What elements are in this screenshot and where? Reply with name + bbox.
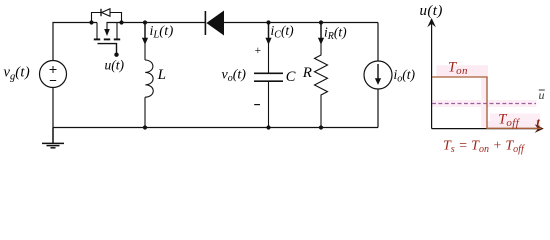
- dashed mean line: [432, 103, 536, 105]
- drain stub: [96, 23, 98, 39]
- pink halo dashed line: [432, 100, 537, 107]
- svg-text:+: +: [255, 45, 262, 57]
- source stub: [116, 23, 118, 39]
- svg-text:vg(t): vg(t): [4, 65, 31, 83]
- svg-text:R: R: [302, 65, 312, 81]
- svg-text:C: C: [286, 69, 296, 85]
- capacitor C wires: [268, 23, 270, 128]
- wire right branch bottom: [377, 89, 379, 128]
- pink halo above baseline: [487, 121, 541, 128]
- pink halo above high line: [437, 65, 489, 76]
- inductor L wire: [144, 23, 146, 61]
- resistor R zigzag: [315, 23, 328, 128]
- y axis: [431, 22, 433, 129]
- current arrow iR: [320, 24, 322, 39]
- ground: [42, 128, 64, 148]
- body diode branch: [92, 13, 122, 23]
- svg-text:t: t: [536, 115, 540, 130]
- body diode triangle (open, points left): [102, 9, 110, 17]
- wire top rail middle: [107, 22, 206, 24]
- gate bar and lead: [98, 44, 117, 53]
- svg-text:u(t): u(t): [420, 3, 443, 19]
- body stub: [106, 23, 108, 30]
- body arrow: [104, 29, 110, 36]
- node dot resistor bottom: [319, 125, 323, 129]
- node dot resistor top: [319, 20, 323, 24]
- current arrow iC: [268, 24, 270, 39]
- wire top rail right: [224, 22, 378, 24]
- current arrow iL: [144, 24, 146, 39]
- voltage source Vg: [40, 61, 67, 88]
- wire vg bottom: [52, 88, 54, 128]
- current source io: [364, 61, 392, 89]
- diode D1 (series, points left): [204, 11, 206, 35]
- svg-text:iC(t): iC(t): [271, 23, 295, 41]
- svg-text:io(t): io(t): [394, 67, 416, 85]
- wire top-left from vg to rail: [53, 23, 97, 61]
- node dot bottom L: [143, 125, 147, 129]
- junction dot left: [89, 20, 93, 24]
- inductor bottom wire: [144, 97, 146, 127]
- contact bars: [94, 38, 120, 40]
- wire right branch down: [377, 23, 379, 62]
- svg-text:iR(t): iR(t): [324, 25, 347, 43]
- node dot capacitor top: [266, 20, 270, 24]
- node A dot: [143, 20, 147, 24]
- svg-text:L: L: [157, 67, 166, 83]
- pink halo behind Toff: [490, 114, 540, 122]
- x axis: [432, 128, 541, 130]
- junction dot right: [119, 20, 123, 24]
- pink halo falling edge: [481, 71, 486, 128]
- wire bottom rail: [53, 127, 378, 129]
- minus sign vo: [254, 104, 260, 106]
- capacitor plates: [254, 73, 283, 81]
- svg-text:u(t): u(t): [105, 58, 125, 73]
- gate terminal dot: [114, 53, 118, 57]
- svg-text:vo(t): vo(t): [222, 68, 247, 85]
- red pulse waveform: [432, 77, 541, 128]
- node dot capacitor bottom: [266, 125, 270, 129]
- inductor L coil: [145, 60, 153, 97]
- body diode cathode bar: [100, 9, 102, 16]
- MOSFET Q1 with body diode: [89, 9, 123, 57]
- svg-text:iL(t): iL(t): [150, 24, 174, 41]
